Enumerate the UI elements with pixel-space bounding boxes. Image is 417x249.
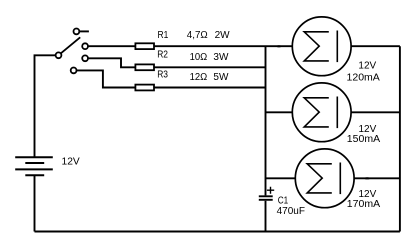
svg-text:5W: 5W xyxy=(213,72,229,83)
wire: contact 1 to R1 xyxy=(88,45,135,47)
wire: bus to lamp H3 xyxy=(266,177,296,179)
lamp H2 bar symbol xyxy=(336,97,338,129)
capacitor C1 top plate xyxy=(259,195,273,197)
svg-text:12V: 12V xyxy=(62,156,81,167)
lamp H1 circle xyxy=(292,17,351,76)
svg-text:R1: R1 xyxy=(158,30,169,41)
wire: R2 to lamp bus xyxy=(154,66,266,68)
wire: right bus vertical xyxy=(399,46,401,231)
svg-text:12Ω: 12Ω xyxy=(190,72,208,83)
battery BT1 negative short plate xyxy=(25,174,44,176)
battery BT1 positive long plate xyxy=(15,156,53,158)
lamp H1 sigma symbol xyxy=(304,32,329,61)
switch pole contact S1 xyxy=(56,52,62,58)
lamp H2 circle xyxy=(292,83,351,142)
switch contact 1 xyxy=(82,43,88,49)
lamp H1 bar symbol xyxy=(336,31,338,63)
svg-text:3W: 3W xyxy=(213,52,229,63)
wire: contact 3 to R3 xyxy=(77,70,136,87)
capacitor C1 bottom plate xyxy=(259,199,273,201)
wire: bus to lamp H2 xyxy=(266,111,293,113)
resistor R2 body xyxy=(135,64,154,70)
wire: R1 to lamp bus and lamp H1 xyxy=(154,45,292,47)
lamp H3 circle xyxy=(295,149,354,208)
battery BT1 second long plate xyxy=(15,168,53,170)
wire: lamp H3 to right bus xyxy=(354,177,400,179)
svg-text:12V: 12V xyxy=(358,60,376,71)
wire: left lamp bus vertical xyxy=(265,46,267,195)
lamp H3 sigma symbol xyxy=(307,164,332,193)
lamp H3 bar symbol xyxy=(339,163,341,195)
svg-text:2W: 2W xyxy=(215,30,231,41)
wire: capacitor to bottom rail xyxy=(265,201,267,232)
svg-text:470uF: 470uF xyxy=(277,206,305,217)
svg-text:4,7Ω: 4,7Ω xyxy=(187,30,208,41)
wire: R3 to lamp bus xyxy=(154,87,266,89)
svg-text:120mA: 120mA xyxy=(347,72,381,83)
wire: lamp H1 to right bus xyxy=(351,45,400,47)
svg-text:170mA: 170mA xyxy=(347,199,381,210)
lamp H2 sigma symbol xyxy=(304,98,329,127)
resistor R1 body xyxy=(135,43,154,49)
switch off-position contact xyxy=(74,29,80,35)
switch arm (wiper) xyxy=(61,37,80,53)
resistor R3 body xyxy=(135,85,154,91)
wire: battery negative lead down xyxy=(34,176,36,232)
svg-text:C1: C1 xyxy=(278,195,289,206)
junction dot on lamp H1 feed wire xyxy=(276,45,281,47)
wire: off-contact stub xyxy=(79,30,89,32)
switch contact 3 xyxy=(71,68,77,74)
svg-text:R2: R2 xyxy=(157,50,168,61)
switch contact 2 xyxy=(82,55,88,61)
svg-text:10Ω: 10Ω xyxy=(190,52,208,63)
wire: contact 2 to R2 xyxy=(88,58,135,67)
wire: bottom return rail xyxy=(35,231,400,233)
capacitor C1 polarity plus sign xyxy=(267,187,274,194)
svg-text:R3: R3 xyxy=(157,70,168,81)
svg-text:150mA: 150mA xyxy=(347,134,381,145)
junction dot on lamp H3 output wire xyxy=(364,177,370,179)
wire: battery positive lead up to switch pole xyxy=(35,55,56,157)
battery BT1 short plate xyxy=(25,162,44,164)
wire: lamp H2 to right bus xyxy=(351,111,400,113)
